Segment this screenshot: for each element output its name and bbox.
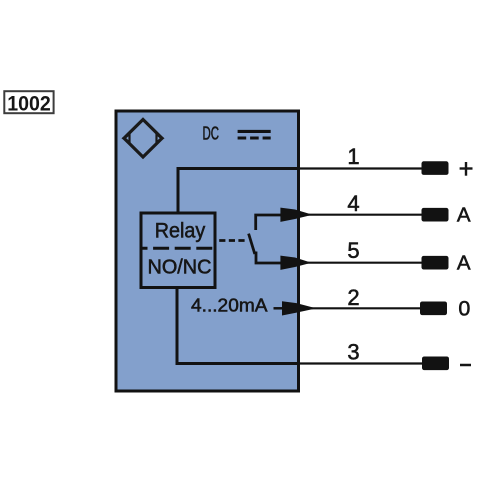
minus label xyxy=(460,364,471,367)
svg-text:A: A xyxy=(457,252,471,275)
terminal 5 xyxy=(422,256,449,270)
terminal 4 xyxy=(422,208,449,222)
relay box dashed separator xyxy=(141,247,215,250)
wire 5 (switch NC to A terminal) xyxy=(307,262,422,264)
wire 3 (relay bottom to - terminal) xyxy=(176,288,423,366)
svg-text:4: 4 xyxy=(347,191,359,216)
terminal 3 xyxy=(422,357,449,371)
relay to switch dashed link xyxy=(219,239,246,242)
sensor body xyxy=(116,111,299,391)
svg-text:A: A xyxy=(457,204,471,227)
svg-text:4...20mA: 4...20mA xyxy=(191,294,268,315)
svg-text:1002: 1002 xyxy=(7,92,51,115)
proximity sensor diamond symbol xyxy=(124,120,163,158)
wire 4 (switch NO to A terminal) xyxy=(308,214,422,216)
relay box K1 xyxy=(141,213,215,288)
svg-text:DC: DC xyxy=(203,123,220,144)
svg-text:5: 5 xyxy=(347,238,359,263)
svg-text:1: 1 xyxy=(347,144,359,169)
switch contact (NO/NC changeover) xyxy=(249,215,281,263)
svg-text:0: 0 xyxy=(458,297,470,321)
plus label xyxy=(460,162,473,176)
wire 2 (analog output to terminal) xyxy=(311,307,421,309)
wire 5 arrowhead xyxy=(280,256,309,270)
wire 1 (relay top to + terminal) xyxy=(177,167,423,213)
wire 2 arrowhead xyxy=(282,301,314,315)
svg-text:Relay: Relay xyxy=(155,220,206,243)
wire 4 arrowhead xyxy=(280,208,310,222)
diagram number box 1002 xyxy=(4,91,53,115)
svg-text:3: 3 xyxy=(347,339,359,364)
terminal 2 xyxy=(420,302,447,316)
terminal 1 xyxy=(422,161,449,175)
analog output stub xyxy=(274,307,284,310)
DC symbol (solid over dashed line) xyxy=(238,131,271,138)
svg-text:2: 2 xyxy=(347,285,359,310)
svg-text:NO/NC: NO/NC xyxy=(148,257,212,279)
